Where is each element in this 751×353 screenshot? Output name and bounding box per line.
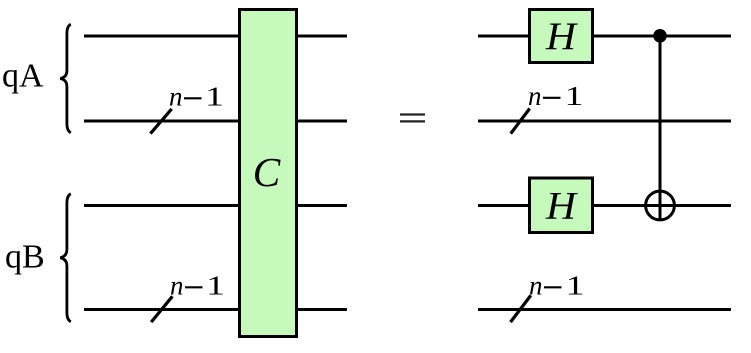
- svg-text:1: 1: [205, 82, 224, 112]
- bus slash qA1 right: [511, 109, 530, 134]
- svg-text:n: n: [528, 81, 542, 111]
- svg-text:H: H: [545, 14, 579, 58]
- wire qB1 left: [84, 308, 239, 311]
- svg-text:n: n: [169, 82, 183, 112]
- wire qA1 right of C: [297, 120, 347, 123]
- gate C box: [240, 10, 297, 337]
- bus width label n-1 qB1 left: [170, 271, 225, 301]
- bus width label n-1 qA1 left: [169, 82, 224, 112]
- wire qB1 right circuit: [478, 308, 731, 311]
- gate H box (qA0): [530, 10, 593, 63]
- wire qB0 right of C: [297, 204, 347, 207]
- bus slash qA1 left: [150, 109, 171, 134]
- wire qA0 right circuit: [478, 35, 731, 38]
- CNOT vertical connector: [659, 36, 662, 220]
- equals sign: [400, 113, 425, 115]
- wire qA0 left: [84, 35, 239, 38]
- svg-text:1: 1: [566, 271, 585, 301]
- svg-text:n: n: [170, 271, 184, 301]
- gate H box (qB0): [530, 178, 593, 233]
- wire qA0 right of C: [297, 35, 347, 38]
- wire qB0 right circuit: [478, 204, 731, 207]
- svg-text:1: 1: [206, 271, 225, 301]
- wire qA1 right circuit: [478, 120, 731, 123]
- bus width label n-1 qA1 right: [528, 81, 584, 111]
- CNOT target: [646, 191, 675, 220]
- svg-text:qB: qB: [5, 238, 45, 275]
- brace for register qB: [60, 194, 71, 322]
- wire qB0 left: [84, 204, 239, 207]
- bus slash qB1 right: [511, 295, 531, 322]
- svg-text:H: H: [545, 184, 579, 228]
- wire qB1 right of C: [297, 308, 347, 311]
- brace for register qA: [60, 24, 71, 132]
- wire qA1 left: [84, 120, 239, 123]
- svg-text:n: n: [529, 271, 543, 301]
- svg-text:C: C: [253, 149, 282, 195]
- svg-text:1: 1: [565, 81, 584, 111]
- bus slash qB1 left: [151, 296, 172, 322]
- bus width label n-1 qB1 right: [529, 271, 585, 301]
- svg-text:qA: qA: [2, 58, 44, 95]
- CNOT control dot: [653, 29, 667, 43]
